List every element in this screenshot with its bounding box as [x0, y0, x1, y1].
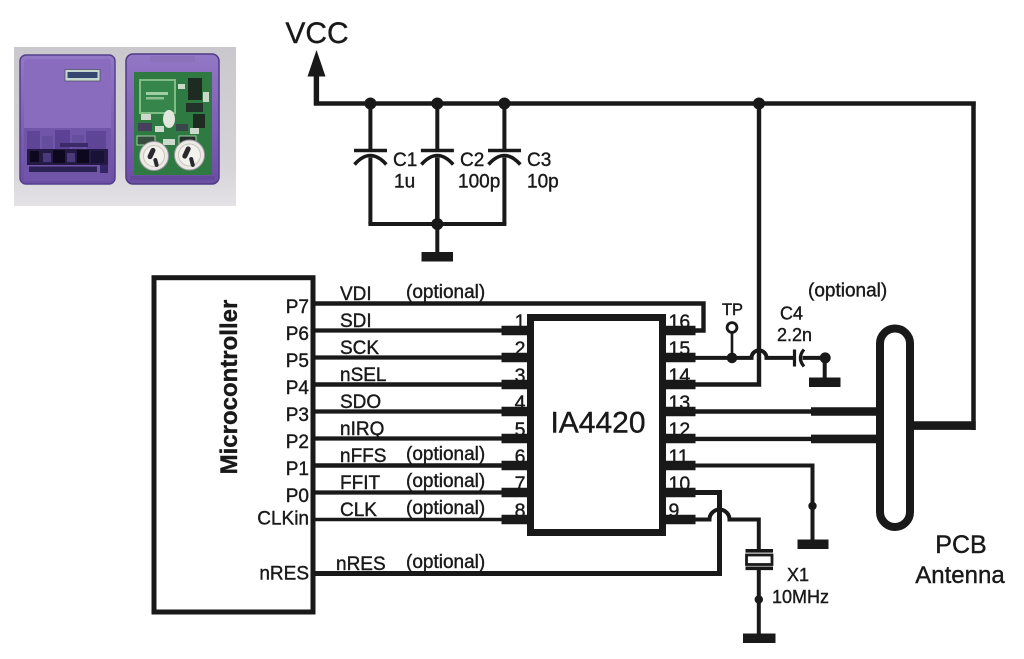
- pin 12 stub: [663, 434, 696, 444]
- svg-text:P5: P5: [286, 351, 309, 372]
- svg-text:FFIT: FFIT: [340, 473, 380, 494]
- wire: pin 15 to C4 with hop over VCC drop: [666, 350, 793, 357]
- svg-text:SDI: SDI: [340, 311, 372, 332]
- VCC arrow symbol: [308, 50, 326, 106]
- svg-text:(optional): (optional): [406, 471, 485, 492]
- ground: crystal: [743, 634, 776, 644]
- svg-text:(optional): (optional): [406, 444, 485, 465]
- wire: pin 9 to crystal with hop over nRES leg: [666, 510, 759, 550]
- wire: antenna tap to VCC vertical (thick): [912, 421, 976, 430]
- svg-text:P3: P3: [286, 405, 309, 426]
- wire SDO: P3 to pin 4: [313, 409, 527, 413]
- wire: pin 11 to ground: [666, 466, 813, 541]
- svg-text:10p: 10p: [527, 172, 559, 193]
- capacitor C4: [795, 350, 827, 367]
- svg-text:C2: C2: [460, 150, 484, 171]
- wire: right vertical from rail to antenna: [971, 102, 976, 431]
- wire: pin 12 to antenna (thick feed): [811, 435, 878, 444]
- svg-text:7: 7: [515, 473, 526, 495]
- svg-text:PCB: PCB: [935, 531, 986, 559]
- wire: capacitor bottom bus: [368, 222, 506, 226]
- svg-text:3: 3: [515, 365, 526, 387]
- pin 4 stub: [502, 407, 531, 417]
- wire SCK: P5 to pin 2: [313, 355, 527, 359]
- node: rail junction at C1: [364, 98, 376, 110]
- photo: transceiver module front and back: [14, 47, 236, 206]
- node: rail junction at C3: [498, 98, 510, 110]
- capacitor C3: [488, 104, 521, 225]
- svg-text:6: 6: [515, 446, 526, 468]
- svg-text:CLK: CLK: [340, 500, 377, 521]
- svg-text:SDO: SDO: [340, 392, 381, 413]
- pin 13 stub: [663, 407, 696, 417]
- ground: below capacitor bank: [422, 252, 454, 262]
- wire nIRQ: P2 to pin 5: [313, 436, 527, 440]
- svg-text:P7: P7: [286, 297, 309, 318]
- pin 7 stub: [502, 488, 531, 498]
- svg-text:(optional): (optional): [406, 498, 485, 519]
- svg-text:nRES: nRES: [336, 554, 386, 575]
- ground: C4: [809, 378, 841, 388]
- svg-text:nSEL: nSEL: [340, 365, 386, 386]
- pin 3 stub: [502, 380, 531, 390]
- svg-text:nRES: nRES: [259, 564, 309, 585]
- svg-text:10: 10: [669, 473, 691, 495]
- pin 9 stub: [663, 515, 696, 525]
- pin 1 stub: [502, 326, 531, 336]
- node: junction at C4 output: [820, 352, 831, 363]
- node: rail junction at C2: [431, 98, 443, 110]
- pin 11 stub: [663, 461, 696, 471]
- svg-text:C3: C3: [527, 150, 551, 171]
- svg-text:Antenna: Antenna: [915, 562, 1005, 589]
- test point TP: [727, 323, 737, 358]
- svg-text:nIRQ: nIRQ: [340, 419, 384, 440]
- svg-text:P4: P4: [286, 378, 310, 399]
- svg-text:TP: TP: [722, 301, 743, 319]
- wire: pin 13 to antenna (thin part): [666, 409, 814, 413]
- wire FFIT: P0 to pin 7: [313, 490, 527, 494]
- svg-text:100p: 100p: [458, 172, 500, 193]
- node: junction on bottom bus: [431, 218, 443, 230]
- svg-text:P6: P6: [286, 324, 309, 345]
- wire nFFS: P1 to pin 6: [313, 463, 527, 467]
- svg-text:P0: P0: [286, 486, 309, 507]
- svg-text:16: 16: [669, 311, 691, 333]
- svg-text:5: 5: [515, 419, 526, 441]
- node: rail junction at VDD drop: [753, 98, 765, 110]
- pin 15 stub: [663, 353, 696, 363]
- svg-text:IA4420: IA4420: [550, 407, 645, 440]
- pin 10 stub: [663, 488, 696, 498]
- wire: pin 13 to antenna (thick feed): [811, 407, 878, 416]
- ground: pin 11: [798, 540, 829, 550]
- pin 8 stub: [502, 515, 531, 525]
- svg-text:X1: X1: [787, 565, 809, 585]
- wire: VCC top rail: [314, 101, 976, 106]
- capacitor C1: [354, 104, 387, 225]
- pin 14 stub: [663, 380, 696, 390]
- pin 6 stub: [502, 461, 531, 471]
- pin 5 stub: [502, 434, 531, 444]
- svg-text:C4: C4: [780, 304, 803, 324]
- capacitor C2: [421, 104, 454, 225]
- svg-text:VDI: VDI: [340, 284, 372, 305]
- svg-text:nFFS: nFFS: [340, 446, 386, 467]
- wire: pin 12 to antenna (thin part): [666, 437, 814, 441]
- wire SDI: P6 to pin 1: [313, 328, 527, 332]
- svg-text:1: 1: [515, 311, 526, 333]
- svg-text:VCC: VCC: [285, 17, 348, 50]
- pin 16 stub: [663, 326, 696, 336]
- wire nSEL: P4 to pin 3: [313, 382, 527, 387]
- wire VDI: P7 to pin 16: [313, 304, 704, 331]
- svg-text:2: 2: [515, 338, 526, 360]
- svg-text:CLKin: CLKin: [257, 509, 309, 530]
- svg-text:SCK: SCK: [340, 338, 379, 359]
- svg-text:C1: C1: [393, 150, 417, 171]
- svg-text:(optional): (optional): [406, 552, 485, 573]
- wire: stem to ground below C2: [435, 224, 439, 253]
- svg-text:1u: 1u: [394, 172, 415, 193]
- svg-text:8: 8: [515, 500, 526, 522]
- svg-text:14: 14: [669, 365, 691, 387]
- IC U1 IA4420 box: [531, 318, 663, 533]
- crystal X1: [746, 551, 774, 634]
- wire CLK: CLKin to pin 8: [313, 518, 527, 522]
- svg-text:P2: P2: [286, 432, 309, 453]
- node: junction below crystal: [755, 595, 763, 603]
- node: TP junction on pin 15 wire: [727, 353, 738, 364]
- wire: VCC drop to pin 14: [694, 104, 759, 385]
- wire: C4 to ground: [823, 358, 827, 378]
- svg-text:4: 4: [515, 392, 526, 414]
- svg-text:2.2n: 2.2n: [777, 325, 812, 345]
- pin 2 stub: [502, 353, 531, 363]
- PCB antenna element: [880, 329, 910, 528]
- node: junction on pin 11 ground leg: [808, 502, 816, 510]
- svg-text:(optional): (optional): [406, 282, 485, 303]
- svg-text:10MHz: 10MHz: [772, 587, 829, 607]
- svg-text:Microcontroller: Microcontroller: [216, 300, 243, 475]
- svg-text:P1: P1: [286, 459, 309, 480]
- wire nRES: microcontroller to pin 10: [313, 493, 720, 574]
- microcontroller U2 box: [154, 278, 313, 612]
- svg-text:(optional): (optional): [808, 281, 887, 302]
